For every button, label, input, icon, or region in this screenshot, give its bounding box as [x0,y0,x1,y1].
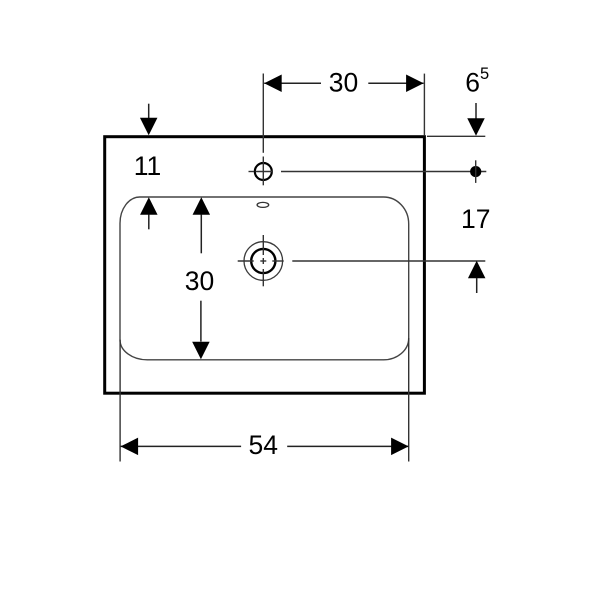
svg-text:54: 54 [248,430,277,460]
dim 65: down arrowhead [467,118,485,136]
dim 30 top: dimension line right segment [368,82,423,84]
faucet hole vertical centerline / extension line for dim 30 [262,74,264,153]
reference dot vertical stub [475,160,477,183]
horizontal line from drain to dim 17 arrow [292,260,485,262]
dim 11: up arrowhead at basin top edge [140,197,158,215]
drain horizontal centerline right segment [272,260,283,262]
drain center cross vertical [262,258,264,264]
dim 54: left extension line [119,340,121,462]
dim 54: left arrowhead [121,438,139,456]
dim 30 vertical: down arrowhead at basin bottom [192,342,210,360]
dim 30 top: right extension line [423,74,425,136]
drain center cross horizontal [260,260,266,262]
inner basin bowl outline [120,197,409,360]
faucet hole circle [255,163,272,180]
dim 54: right extension line [408,338,410,462]
dim 30 top: left arrowhead [264,74,282,92]
dim 30 top: dimension line left segment [264,82,321,84]
dim 17: up arrowhead at drain line [468,261,486,279]
dim 30 vertical: lower tail [200,301,202,342]
dim 65: extension line right of rect top edge [427,135,485,137]
dim 11: down arrowhead at rect top edge [140,118,158,136]
dim 30 vertical: upper tail [200,215,202,254]
drain horizontal centerline left segment [238,260,254,262]
dim 11: up arrow tail [148,215,150,230]
dim 30 vertical: up arrowhead at basin top [193,197,211,215]
dim 17: arrow tail [476,278,478,293]
overflow slot ellipse [257,202,269,207]
dim 65: arrow tail line [475,103,477,119]
washbasin outer rectangle [105,137,425,394]
drain hole outer thin circle [244,242,283,281]
dim 54: dimension line right segment [287,445,408,447]
faucet hole horizontal centerline left stub [249,171,255,173]
reference dot (filled) on faucet line [470,166,481,177]
svg-text:30: 30 [329,67,358,97]
drain vertical centerline bottom segment [262,269,264,286]
svg-text:17: 17 [461,204,490,234]
faucet hole horizontal centerline through circle [256,171,273,173]
svg-text:30: 30 [185,266,214,296]
dim 30 top: right arrowhead [406,74,424,92]
dim 54: right arrowhead [391,438,409,456]
faucet hole vertical centerline lower segment [262,157,264,186]
drain vertical centerline top segment [262,235,264,255]
svg-text:11: 11 [134,151,162,181]
dim 54: dimension line left segment [121,445,242,447]
dim 11: down arrow tail [148,104,150,119]
drain hole thick circle [251,249,275,273]
horizontal line from faucet hole to reference dot [281,171,486,173]
